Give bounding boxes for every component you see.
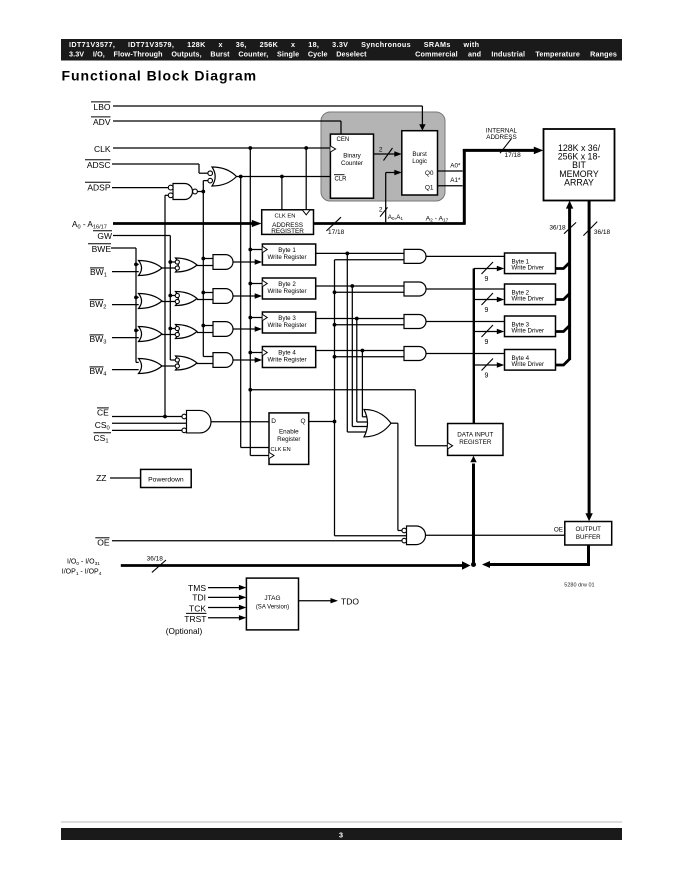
wire byte1 driver output	[556, 263, 570, 269]
wire CS0	[112, 422, 187, 424]
wire Q0 output	[438, 170, 463, 172]
wire byte2 driver output	[556, 294, 570, 300]
signal label CS1	[94, 432, 112, 434]
wire chip-write tap byte2	[335, 291, 405, 293]
wire byte4 write tap to or	[361, 351, 363, 417]
wire CE to NAND lower input	[165, 194, 168, 196]
svg-text:17/18: 17/18	[505, 152, 522, 159]
wire stage1 to stage2 byte3	[162, 334, 175, 336]
svg-text:OE: OE	[554, 527, 563, 534]
svg-text:TDO: TDO	[341, 596, 359, 606]
wire OE	[112, 540, 402, 542]
signal label ADV	[91, 116, 111, 118]
or gate byte1 stage2	[176, 258, 198, 272]
svg-text:Write Driver: Write Driver	[512, 328, 545, 335]
signal label TRST	[186, 612, 207, 614]
wire stage1 to stage2 byte2	[162, 301, 175, 303]
svg-text:OUTPUT: OUTPUT	[575, 526, 601, 533]
wire byte3 to write driver	[426, 321, 505, 323]
svg-text:A1*: A1*	[450, 177, 461, 184]
svg-text:LBO: LBO	[93, 102, 110, 112]
IO input bus 36/18	[121, 564, 463, 567]
svg-text:I/O0 - I/O31: I/O0 - I/O31	[67, 559, 100, 567]
wire stage2 to stage3 byte4	[197, 363, 213, 365]
byte 2 write driver block	[505, 284, 556, 305]
svg-text:ADSC: ADSC	[87, 160, 111, 170]
wire stage1 to stage2 byte4	[162, 365, 175, 367]
wire byte2 register output	[316, 285, 404, 287]
svg-text:BW2: BW2	[90, 299, 107, 311]
and gate output enable	[407, 526, 426, 545]
internal address bus	[463, 149, 466, 224]
wire IO to data input register	[472, 464, 475, 564]
and gate byte3 driver enable	[404, 315, 426, 329]
wire stage2 to stage3 byte2	[197, 299, 213, 301]
wire BWE tap byte2	[136, 296, 139, 298]
wire Q1 output	[438, 185, 463, 187]
svg-text:DATA INPUT: DATA INPUT	[457, 432, 493, 439]
svg-text:BW3: BW3	[90, 334, 107, 346]
burst logic block	[402, 131, 438, 195]
svg-text:ZZ: ZZ	[96, 473, 106, 483]
or gate U1 (ADSC+ADSP)	[212, 167, 237, 186]
wire byte1 write tap to or	[346, 253, 348, 432]
svg-text:BW1: BW1	[90, 267, 107, 279]
wire enable register Q net	[309, 421, 335, 423]
byte 1 write driver block	[505, 253, 556, 274]
svg-text:TMS: TMS	[188, 583, 206, 593]
wire data 9-bit slice byte3	[474, 331, 498, 333]
wire byte1 write strobe with arrow	[233, 261, 256, 263]
svg-text:36/18: 36/18	[594, 229, 611, 236]
svg-text:(SA Version): (SA Version)	[256, 605, 289, 611]
wire CLK to data input register clock	[250, 389, 415, 391]
wire chip-write tap byte1	[335, 259, 405, 261]
wire byte2 write strobe with arrow	[233, 295, 256, 297]
wire clock tap byte4 register	[250, 352, 262, 354]
byte 2 write register block	[262, 278, 315, 299]
svg-text:36/18: 36/18	[147, 556, 164, 563]
svg-text:Powerdown: Powerdown	[148, 477, 184, 484]
wire clock tap byte1 register	[250, 249, 262, 251]
wire write-timing tap byte1	[203, 258, 213, 260]
wire clock tap byte2 register	[250, 283, 262, 285]
footer hairline	[61, 821, 622, 823]
svg-text:ARRAY: ARRAY	[564, 178, 594, 188]
svg-text:2: 2	[379, 147, 383, 154]
svg-text:9: 9	[485, 339, 489, 346]
or gate byte3 stage2	[176, 325, 198, 339]
svg-text:9: 9	[485, 373, 489, 380]
signal label BW4	[90, 366, 104, 368]
svg-text:CS0: CS0	[95, 420, 110, 432]
svg-text:CS1: CS1	[94, 433, 109, 445]
wire chip-write tap byte4	[335, 356, 405, 358]
wire BWE tap byte3	[136, 329, 139, 331]
wire BW4 input	[112, 369, 139, 371]
svg-text:JTAG: JTAG	[264, 595, 280, 602]
wire TCK	[208, 607, 240, 609]
svg-text:36/18: 36/18	[549, 225, 566, 232]
and gate chip select	[187, 410, 212, 433]
svg-text:Write Driver: Write Driver	[512, 296, 545, 303]
svg-text:17/18: 17/18	[328, 229, 345, 236]
svg-text:Write Driver: Write Driver	[512, 361, 545, 368]
signal label ADSP	[85, 181, 111, 183]
and gate byte2 driver enable	[404, 282, 426, 296]
svg-text:Byte 1: Byte 1	[278, 247, 296, 254]
wire ADSC to OR gate	[112, 163, 199, 165]
svg-text:TCK: TCK	[189, 603, 206, 613]
and gate byte4 driver enable	[404, 347, 426, 361]
svg-text:Q1: Q1	[425, 185, 434, 192]
svg-text:Burst: Burst	[412, 151, 427, 158]
signal label BW1	[90, 267, 104, 269]
page header bar	[61, 39, 622, 61]
svg-text:Write Register: Write Register	[267, 357, 306, 364]
svg-text:ADV: ADV	[93, 117, 111, 127]
wire byte1 register output	[316, 252, 404, 254]
wire output-enable to buffer	[426, 534, 565, 536]
svg-text:OE: OE	[97, 538, 110, 548]
svg-text:Commercial and Industrial Temp: Commercial and Industrial Temperature Ra…	[415, 50, 617, 59]
svg-text:(Optional): (Optional)	[166, 626, 203, 636]
signal label BWE	[88, 243, 111, 245]
wire byte2 write tap to or	[351, 286, 353, 427]
wire GW tap byte3	[170, 328, 175, 330]
powerdown block	[141, 469, 192, 487]
svg-text:IDT71V3577, IDT71V3579, 128K x: IDT71V3577, IDT71V3579, 128K x 36, 256K …	[69, 40, 479, 49]
wire TDO	[299, 600, 332, 602]
data input distribution bus	[473, 269, 475, 424]
and gate byte2 stage3	[213, 289, 233, 304]
wire write-timing tap byte4	[203, 356, 213, 358]
wire write-timing tap byte2	[203, 292, 213, 294]
svg-text:2: 2	[379, 206, 383, 213]
wire stage1 to stage2 byte1	[162, 267, 175, 269]
byte 4 write register block	[262, 347, 315, 368]
or gate write detect	[364, 409, 391, 437]
wire BW3 input	[112, 337, 139, 339]
svg-text:9: 9	[485, 307, 489, 314]
wire BWE tap byte4	[136, 361, 139, 363]
and gate byte1 driver enable	[404, 249, 426, 263]
byte 4 write driver block	[505, 350, 556, 371]
address register block	[262, 210, 314, 235]
wire output buffer to IO bus	[587, 545, 590, 565]
write data bus into array 36/18	[568, 207, 571, 361]
wire ADV to CEN	[113, 120, 341, 122]
svg-text:Byte 2: Byte 2	[278, 281, 296, 288]
svg-text:Counter: Counter	[341, 160, 363, 167]
wire clock tap byte3 register	[250, 317, 262, 319]
wire byte3 register output	[316, 318, 404, 320]
svg-text:Write Register: Write Register	[267, 288, 306, 295]
wire GW distribution	[113, 235, 170, 237]
burst counter group outline	[321, 112, 445, 201]
wire data 9-bit slice byte4	[474, 364, 498, 366]
IO junction node	[471, 562, 476, 567]
svg-text:Byte 3: Byte 3	[278, 315, 296, 322]
svg-text:A0*: A0*	[450, 162, 461, 169]
wire LBO to burst logic	[113, 105, 422, 107]
wire write detect output	[391, 422, 398, 424]
svg-text:CLR: CLR	[335, 176, 348, 182]
or gate byte4 stage2	[176, 356, 198, 370]
svg-text:CLK EN: CLK EN	[271, 447, 291, 453]
data input register block	[448, 424, 503, 456]
svg-text:A0 - A16/17: A0 - A16/17	[72, 220, 107, 231]
wire byte4 to write driver	[426, 353, 505, 355]
wire TMS	[208, 587, 240, 589]
wire data 9-bit slice byte2	[474, 299, 498, 301]
wire byte3 driver output	[556, 326, 570, 332]
svg-text:CEN: CEN	[337, 137, 350, 143]
wire data 9-bit slice byte1	[474, 268, 498, 270]
wire ZZ	[110, 477, 141, 479]
enable register block	[269, 413, 309, 465]
svg-text:REGISTER: REGISTER	[271, 228, 304, 235]
svg-text:CE: CE	[97, 407, 109, 417]
jtag block	[246, 578, 298, 630]
svg-text:REGISTER: REGISTER	[459, 439, 492, 446]
svg-text:GW: GW	[97, 231, 112, 241]
footer bar	[61, 828, 622, 840]
svg-text:A0,A1: A0,A1	[388, 214, 404, 221]
memory array block	[544, 129, 615, 201]
svg-text:Write Register: Write Register	[267, 254, 306, 261]
and gate byte1 stage3	[213, 255, 233, 270]
wire byte4 write strobe with arrow	[233, 359, 256, 361]
wire GW tap byte2	[170, 295, 175, 297]
wire CLK branch to address register	[305, 148, 307, 210]
and gate byte4 stage3	[213, 353, 233, 368]
svg-text:TRST: TRST	[184, 614, 206, 624]
or gate byte4 stage1	[139, 359, 163, 374]
svg-text:Write Driver: Write Driver	[512, 265, 545, 272]
wire stage2 to stage3 byte3	[197, 332, 213, 334]
svg-text:CLK: CLK	[94, 144, 111, 154]
svg-text:I/OP1 - I/OP4: I/OP1 - I/OP4	[62, 568, 102, 576]
signal label GW	[93, 230, 112, 232]
svg-text:TDI: TDI	[192, 593, 206, 603]
svg-text:BW4: BW4	[90, 366, 108, 378]
or gate byte1 stage1	[139, 261, 163, 276]
wire TDI	[208, 596, 240, 598]
wire BWE tap byte1	[136, 263, 139, 265]
nand gate U2 (ADSP qualify)	[173, 184, 193, 200]
wire clock-enable net	[237, 176, 331, 178]
wire BWE distribution	[111, 247, 136, 249]
svg-text:ADDRESS: ADDRESS	[486, 134, 516, 141]
svg-text:BUFFER: BUFFER	[576, 534, 601, 541]
wire write-timing vertical	[202, 192, 204, 357]
wire BW2 input	[112, 304, 139, 306]
wire ADSP to NAND gate	[112, 187, 168, 189]
signal label LBO	[91, 101, 111, 103]
signal label CE	[97, 407, 109, 409]
wire byte2 to write driver	[426, 288, 505, 290]
or gate byte2 stage2	[176, 292, 198, 306]
wire clock-enable branch to address register	[281, 177, 283, 210]
wire counter to burst logic 2-bit	[374, 153, 396, 155]
svg-text:3: 3	[339, 831, 343, 840]
arrow LBO into burst logic	[419, 124, 425, 131]
signal label OE	[95, 537, 109, 539]
wire GW tap byte4	[170, 359, 175, 361]
read data bus from array 36/18	[588, 201, 591, 515]
wire clock-enable branch to enable register	[240, 177, 242, 448]
svg-text:Register: Register	[277, 436, 300, 443]
byte 3 write register block	[262, 312, 315, 333]
wire BW1 input	[112, 271, 139, 273]
wire A0,A1 branch to burst logic	[385, 173, 387, 223]
wire byte3 write strobe with arrow	[233, 328, 256, 330]
wire TRST	[208, 617, 240, 619]
signal label BW3	[90, 334, 104, 336]
wire chip-select to enable register D	[211, 421, 269, 423]
wire CE	[112, 416, 182, 418]
svg-text:Binary: Binary	[343, 153, 361, 160]
or gate byte2 stage1	[139, 294, 163, 309]
svg-text:Enable: Enable	[279, 429, 299, 436]
wire CLK	[113, 147, 330, 149]
wire CS1	[112, 429, 182, 431]
address input bus	[113, 222, 253, 225]
wire write-timing tap byte3	[203, 325, 213, 327]
wire stage2 to stage3 byte1	[197, 265, 213, 267]
svg-text:3.3V I/O, Flow-Through Outputs: 3.3V I/O, Flow-Through Outputs, Burst Co…	[69, 50, 367, 59]
wire NAND output node	[197, 191, 203, 193]
wire GW tap byte1	[170, 261, 175, 263]
svg-text:5280 drw 01: 5280 drw 01	[564, 582, 594, 588]
wire byte4 driver output	[556, 359, 570, 365]
output buffer block	[565, 522, 612, 546]
svg-text:A2 - A17: A2 - A17	[426, 216, 449, 224]
svg-text:Logic: Logic	[412, 158, 427, 165]
svg-text:CLK EN: CLK EN	[275, 214, 296, 220]
svg-text:BWE: BWE	[92, 244, 112, 254]
svg-text:Write Register: Write Register	[267, 322, 306, 329]
wire byte4 register output	[316, 350, 404, 352]
svg-text:Byte 4: Byte 4	[278, 349, 296, 356]
wire byte3 write tap to or	[356, 319, 358, 423]
svg-text:ADSP: ADSP	[87, 183, 110, 193]
svg-text:Q: Q	[301, 418, 306, 425]
or gate byte3 stage1	[139, 327, 163, 342]
wire byte1 to write driver	[426, 255, 505, 257]
address register output bus 17/18	[314, 222, 466, 225]
svg-text:9: 9	[485, 276, 489, 283]
byte 3 write driver block	[505, 316, 556, 337]
binary counter block	[330, 134, 373, 198]
wire chip-write tap byte3	[335, 324, 405, 326]
signal label ADSC	[85, 159, 111, 161]
signal label BW2	[90, 299, 104, 301]
wire CLK distribution vertical	[249, 148, 251, 456]
svg-text:Q0: Q0	[425, 170, 434, 177]
byte 1 write register block	[262, 244, 315, 265]
and gate byte3 stage3	[213, 322, 233, 337]
svg-text:Functional Block Diagram: Functional Block Diagram	[62, 68, 258, 84]
svg-text:D: D	[271, 418, 276, 425]
